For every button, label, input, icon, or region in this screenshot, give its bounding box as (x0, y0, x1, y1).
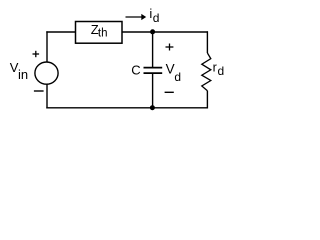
wire: bottom horizontal (46, 107, 208, 109)
plus sign at source top (33, 51, 40, 57)
wire: left branch vertical from source top to top-left corner (46, 31, 48, 62)
voltage source Vin circle (35, 62, 58, 84)
wire: right branch vertical top (206, 31, 208, 53)
wire: middle branch vertical from capacitor to bottom junction (152, 74, 154, 108)
impedance box Zth (76, 22, 123, 44)
svg-text:r: r (213, 60, 217, 74)
wire: top horizontal from Zth box to top-right corner (122, 31, 208, 33)
plus sign for Vd (166, 44, 174, 51)
junction node: top (150, 29, 155, 34)
wire: left branch vertical from source bottom to bottom-left corner (46, 84, 48, 108)
svg-text:V: V (166, 61, 175, 76)
minus sign for Vd (165, 91, 174, 93)
wire: middle branch vertical from top junction to capacitor (152, 32, 154, 67)
svg-text:th: th (98, 27, 108, 39)
wire: right branch vertical bottom (206, 91, 208, 109)
wire: top horizontal from corner to Zth box (46, 31, 75, 33)
svg-text:d: d (218, 64, 225, 78)
resistor rd zigzag (202, 53, 211, 91)
svg-text:d: d (174, 70, 181, 84)
minus sign at source bottom (34, 90, 44, 92)
current arrow id (126, 16, 142, 18)
capacitor C bottom plate (144, 72, 163, 74)
svg-text:in: in (18, 67, 28, 82)
junction node: bottom (150, 105, 155, 110)
svg-text:d: d (153, 11, 160, 25)
capacitor C top plate (144, 67, 163, 69)
svg-text:C: C (131, 63, 140, 78)
